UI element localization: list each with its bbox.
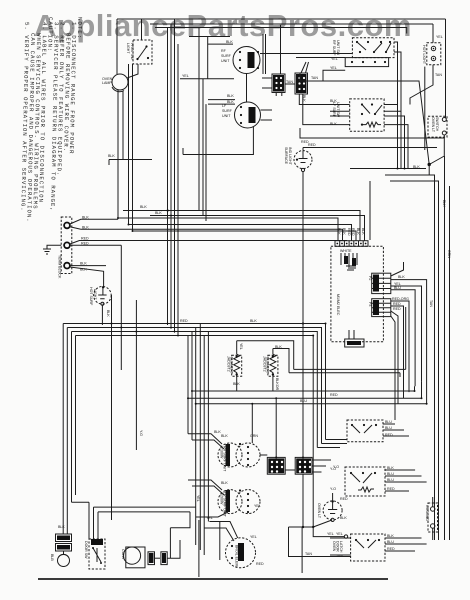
- surface unit SW1: [233, 47, 260, 74]
- svg-text:BLK: BLK: [387, 534, 394, 538]
- svg-text:RED: RED: [256, 562, 264, 566]
- svg-text:BLK: BLK: [221, 481, 228, 485]
- note text block: [19, 17, 83, 223]
- connectors P9 P10: [56, 534, 72, 542]
- svg-text:BLU: BLU: [387, 540, 394, 544]
- svg-text:UNIT: UNIT: [221, 59, 230, 63]
- terminal block TB1: [58, 217, 72, 279]
- svg-text:BLKOR: BLKOR: [275, 378, 279, 391]
- svg-text:RF: RF: [221, 49, 227, 53]
- svg-text:OVEN LT: OVEN LT: [317, 503, 321, 519]
- svg-text:UNIT SW: UNIT SW: [336, 102, 340, 118]
- surface unit switches SW3 SW4 SW5: [188, 403, 264, 568]
- svg-text:BLK: BLK: [82, 226, 89, 230]
- wire vertical spine cluster A: [168, 19, 179, 336]
- wire door latch area: [289, 474, 351, 573]
- ground symbol: [43, 245, 61, 254]
- svg-text:LAMP: LAMP: [102, 81, 112, 85]
- svg-text:BLK: BLK: [337, 228, 341, 235]
- svg-text:TAN: TAN: [429, 300, 433, 307]
- svg-text:DOOR: DOOR: [336, 541, 340, 552]
- svg-text:TAN: TAN: [286, 80, 293, 84]
- svg-text:Y-G: Y-G: [139, 430, 143, 436]
- light protector switch S1: [126, 19, 152, 78]
- solid strip below: [345, 58, 388, 67]
- bake element coil: [361, 124, 363, 126]
- svg-text:BLK: BLK: [275, 345, 282, 349]
- svg-text:YEL: YEL: [250, 535, 257, 539]
- svg-text:UNIT: UNIT: [222, 114, 231, 118]
- svg-text:Y-O: Y-O: [330, 467, 336, 471]
- svg-text:P2: P2: [368, 276, 372, 280]
- svg-text:YEL: YEL: [206, 516, 213, 520]
- svg-text:YEL: YEL: [327, 532, 334, 536]
- wire routing right of P7 P8: [260, 455, 331, 460]
- connector P4: [262, 74, 285, 457]
- svg-text:BLK: BLK: [108, 154, 115, 158]
- svg-text:GRN: GRN: [250, 434, 258, 438]
- svg-text:RED: RED: [340, 497, 348, 501]
- wire lamp drops: [109, 64, 152, 231]
- svg-text:HOT SURF: HOT SURF: [89, 287, 93, 306]
- oven lamp B1: [102, 74, 128, 92]
- infinite switch S2: [331, 38, 401, 169]
- connector P3: [368, 299, 391, 317]
- connector P2: [368, 273, 391, 293]
- svg-text:RED-ORG: RED-ORG: [392, 297, 409, 301]
- svg-text:YEL: YEL: [331, 57, 338, 61]
- svg-text:RED: RED: [308, 143, 316, 147]
- door switch S9: [89, 539, 105, 569]
- svg-text:WHITE: WHITE: [340, 249, 352, 253]
- svg-text:SURF: SURF: [221, 54, 232, 58]
- svg-text:BLK: BLK: [82, 216, 89, 220]
- resistor R1: [234, 341, 240, 391]
- svg-text:YEL: YEL: [239, 343, 243, 350]
- control board U1 (M1/M2 ELEC): [331, 228, 391, 347]
- svg-text:BLK: BLK: [221, 434, 228, 438]
- svg-text:RED: RED: [81, 237, 89, 241]
- svg-text:BLU: BLU: [385, 420, 392, 424]
- svg-text:BLK: BLK: [250, 319, 257, 323]
- svg-text:BLK: BLK: [58, 525, 65, 529]
- connectors P7 P8: [260, 440, 347, 475]
- inner component scribbles: [340, 249, 357, 270]
- connectors P11 P12: [148, 552, 155, 565]
- svg-text:HOT LIGHT: HOT LIGHT: [422, 45, 426, 65]
- wire fan-out from P2 P3: [391, 262, 427, 420]
- svg-text:DOOR SW: DOOR SW: [84, 541, 88, 559]
- svg-text:Y-O: Y-O: [330, 487, 336, 491]
- bottom border: [38, 578, 388, 580]
- wire top bus L2: [150, 23, 433, 25]
- svg-text:LIGHT: LIGHT: [126, 43, 130, 54]
- wire mid-right runs: [300, 66, 444, 165]
- oven cycle switch S7: [351, 534, 385, 561]
- wire bus TB1 to control board: [70, 210, 365, 272]
- svg-text:BLK: BLK: [442, 200, 446, 207]
- oven thermostat switch S6: [345, 467, 385, 496]
- svg-text:YEL: YEL: [182, 74, 189, 78]
- connector P5: [285, 73, 350, 125]
- svg-text:M1/M2 ELEC: M1/M2 ELEC: [336, 294, 340, 316]
- resistor R2: [270, 349, 276, 392]
- svg-text:BLK: BLK: [106, 310, 110, 317]
- svg-text:BLK: BLK: [226, 40, 233, 44]
- wire mid verticals: [112, 245, 137, 520]
- svg-text:BROIL ELEM: BROIL ELEM: [235, 545, 239, 566]
- svg-text:RED: RED: [347, 228, 351, 236]
- wire bottom-left feeds: [72, 502, 90, 539]
- junction dots at crossings: [111, 210, 428, 459]
- svg-text:RED: RED: [387, 547, 395, 551]
- box: [189, 37, 230, 80]
- svg-text:RED: RED: [393, 302, 401, 306]
- surface unit SW4: [218, 490, 242, 514]
- svg-text:BLK: BLK: [233, 382, 240, 386]
- infinite switch S3: [330, 99, 408, 169]
- svg-text:BLU: BLU: [394, 286, 401, 290]
- svg-text:2100W: 2100W: [220, 447, 224, 459]
- oven selector switch S5: [347, 420, 383, 442]
- wire labels scattered: [106, 154, 451, 436]
- svg-text:TAN: TAN: [305, 552, 312, 556]
- oven lamp B2: [58, 555, 70, 567]
- wire oven lamp feed: [116, 19, 118, 74]
- wire top bus L1: [117, 18, 446, 20]
- wire to SW5: [209, 522, 237, 538]
- connector P1: [335, 228, 368, 246]
- svg-text:RED: RED: [180, 319, 188, 323]
- svg-text:IND LIGHT: IND LIGHT: [288, 147, 292, 166]
- svg-text:GRN: GRN: [447, 250, 451, 258]
- svg-text:RED: RED: [385, 433, 393, 437]
- svg-text:UNIT SW: UNIT SW: [336, 40, 340, 56]
- svg-text:BLK: BLK: [387, 466, 394, 470]
- convection motor M1: [126, 547, 145, 568]
- svg-text:SURF: SURF: [222, 109, 233, 113]
- svg-text:CONV: CONV: [121, 549, 125, 560]
- svg-text:BLK: BLK: [140, 205, 147, 209]
- wire surf unit drops: [199, 28, 206, 222]
- svg-text:RED: RED: [351, 228, 355, 236]
- svg-text:RED: RED: [81, 242, 89, 246]
- svg-text:BLK: BLK: [227, 94, 234, 98]
- svg-text:TERM BLOCK: TERM BLOCK: [58, 255, 62, 279]
- wire vertical cluster C: [188, 324, 208, 556]
- wires: [208, 43, 233, 45]
- svg-text:BLU: BLU: [387, 472, 394, 476]
- svg-text:BLK: BLK: [330, 122, 337, 126]
- svg-text:BLK: BLK: [330, 99, 337, 103]
- svg-text:BLK: BLK: [302, 95, 306, 102]
- wire loop top: [237, 341, 294, 370]
- svg-text:SWITCH: SWITCH: [435, 117, 439, 132]
- svg-text:BLK: BLK: [155, 211, 162, 215]
- svg-text:AppliancePartsPros.com: AppliancePartsPros.com: [34, 8, 412, 43]
- wire right-side runs: [350, 156, 450, 540]
- top bus wires: [117, 19, 446, 34]
- svg-text:YEL: YEL: [336, 532, 343, 536]
- svg-text:BLK: BLK: [227, 100, 234, 104]
- broil unit SW5: [226, 538, 256, 568]
- surface unit SW3: [218, 443, 242, 467]
- bottom-left component group: [50, 502, 196, 569]
- svg-text:P3: P3: [368, 302, 372, 306]
- svg-text:1200W: 1200W: [220, 493, 224, 505]
- wire bottom joins: [196, 495, 220, 577]
- warmer element circuit: [227, 341, 294, 391]
- hot surface indicator light DS1: [70, 267, 111, 325]
- svg-text:BLK: BLK: [361, 228, 365, 235]
- wire top bus L3: [155, 28, 407, 34]
- svg-text:BLK: BLK: [214, 430, 221, 434]
- svg-text:BLU: BLU: [300, 399, 307, 403]
- connector P6: [345, 339, 364, 347]
- svg-text:BLU: BLU: [387, 478, 394, 482]
- svg-text:RF SURF: RF SURF: [332, 40, 336, 56]
- svg-text:BLU: BLU: [385, 426, 392, 430]
- svg-text:LATCH: LATCH: [339, 541, 343, 553]
- hot light indicator DS2: [410, 24, 443, 150]
- door lock switch S8: [428, 503, 438, 532]
- svg-text:OVEN: OVEN: [332, 541, 336, 552]
- svg-text:GROUND: GROUND: [425, 505, 429, 521]
- wire bus B distribution: [63, 323, 325, 534]
- svg-text:BLB: BLB: [50, 554, 54, 561]
- svg-text:YEL: YEL: [254, 504, 261, 508]
- svg-text:YEL: YEL: [196, 495, 200, 502]
- surface unit SW2: [235, 102, 261, 128]
- svg-text:SURFACE: SURFACE: [284, 147, 288, 165]
- oven light switch S4: [428, 19, 447, 165]
- svg-text:BLK: BLK: [340, 516, 347, 520]
- svg-text:YEL: YEL: [436, 35, 443, 39]
- svg-text:LF SURF: LF SURF: [332, 102, 336, 118]
- wire to SW4: [188, 480, 224, 495]
- svg-text:RED: RED: [330, 393, 338, 397]
- svg-text:BLK: BLK: [398, 275, 405, 279]
- svg-text:BLK: BLK: [80, 262, 87, 266]
- svg-text:TAN: TAN: [311, 76, 318, 80]
- oven switch group: [313, 420, 437, 561]
- svg-text:LIGHT: LIGHT: [93, 289, 97, 300]
- surface indicator light DS3: [284, 143, 437, 457]
- svg-text:RED: RED: [393, 307, 401, 311]
- svg-text:ELEMENT: ELEMENT: [230, 357, 234, 375]
- wire to SW3: [188, 434, 224, 449]
- svg-text:OVEN LT: OVEN LT: [431, 117, 435, 133]
- surface unit switches SW1 SW2: [180, 25, 352, 155]
- exits right: [394, 42, 401, 169]
- svg-text:RED: RED: [387, 487, 395, 491]
- exits right: [384, 105, 408, 169]
- svg-text:BLK: BLK: [342, 228, 346, 235]
- svg-text:TAN: TAN: [435, 73, 442, 77]
- oven light DS4: [323, 501, 342, 520]
- wire lower distribution: [188, 307, 427, 404]
- svg-text:YEL: YEL: [330, 66, 337, 70]
- svg-text:BLK: BLK: [356, 228, 360, 235]
- node J1: [413, 163, 431, 175]
- svg-text:ELEMENT: ELEMENT: [266, 357, 270, 375]
- svg-text:PROT SW: PROT SW: [130, 43, 134, 60]
